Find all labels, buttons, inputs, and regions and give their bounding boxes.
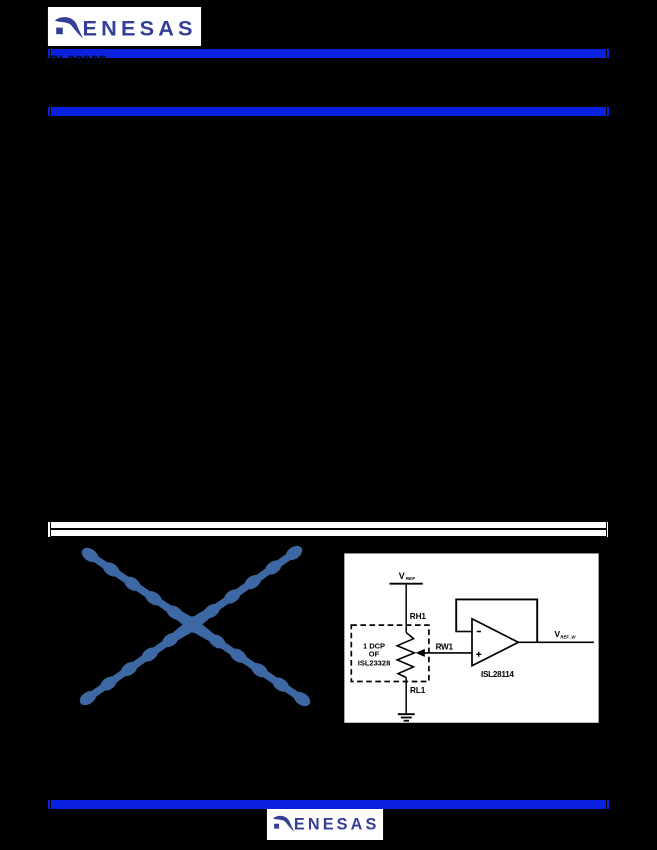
chart line series 2 (bottom-left to top-right): [78, 544, 304, 708]
svg-text:ENESAS: ENESAS: [294, 815, 377, 833]
node VREF_W label: [554, 629, 576, 639]
second blue bar left tick: [48, 107, 50, 116]
svg-text:ISL28114: ISL28114: [481, 669, 514, 678]
Renesas logo bottom white box: [266, 809, 384, 840]
potentiometer zigzag (RH1/RL1 string): [397, 632, 414, 677]
svg-text:RL1: RL1: [410, 686, 426, 695]
second blue bar: [51, 107, 606, 116]
svg-text:RW1: RW1: [436, 642, 454, 651]
white double rule upper: [51, 522, 607, 528]
top blue bar right tick: [607, 49, 609, 58]
svg-text:RH1: RH1: [410, 612, 427, 621]
Renesas logo R swoosh: [55, 17, 83, 39]
svg-text:REF_W: REF_W: [560, 634, 576, 639]
DCP dashed box: [351, 625, 429, 681]
bottom blue bar left tick: [48, 800, 50, 809]
white double rule left tick: [48, 522, 50, 537]
wire inverting input: [456, 630, 472, 632]
svg-text:V: V: [399, 570, 405, 580]
svg-text:REF: REF: [406, 576, 417, 582]
VREF supply rail: [390, 582, 423, 584]
svg-text:ENESAS: ENESAS: [83, 16, 193, 40]
chart line series 1 (top-left to bottom-right): [80, 546, 312, 709]
top blue bar: [51, 49, 606, 58]
second blue bar right tick: [607, 107, 609, 116]
bottom blue bar: [51, 800, 606, 809]
svg-text:ISL23328: ISL23328: [358, 658, 391, 667]
Renesas logo square dot (bottom): [274, 823, 279, 828]
right figure: circuit schematic: [343, 552, 601, 725]
feedback loop wire: [456, 599, 537, 642]
ground symbol: [398, 714, 415, 721]
wire wiper to op-amp + input: [424, 651, 473, 653]
Renesas logo R swoosh (bottom): [273, 816, 294, 832]
op-amp U1 triangle: [472, 618, 518, 665]
wire RL1 to ground: [405, 677, 407, 713]
figure white background box: [344, 552, 600, 723]
white double rule lower: [51, 530, 607, 536]
wiper arrowhead RW1: [416, 648, 425, 656]
Renesas logo top-left white box: [47, 7, 202, 46]
op-amp minus sign: [477, 630, 481, 632]
output wire to VREF_W: [518, 641, 594, 643]
bottom blue bar right tick: [607, 800, 609, 809]
left figure: X chart lines: [70, 538, 315, 710]
white double rule right tick: [607, 522, 609, 537]
top blue bar left tick: [48, 49, 50, 58]
DCP label text: [358, 641, 391, 667]
dark part-number text overlapping bar bottom (ISL23328): [46, 54, 107, 68]
svg-text:OF: OF: [369, 649, 380, 658]
node VREF label: [399, 570, 416, 581]
Renesas logo square dot: [56, 28, 63, 35]
wire VREF rail to RH1: [405, 583, 407, 632]
op-amp plus sign: [476, 651, 481, 656]
